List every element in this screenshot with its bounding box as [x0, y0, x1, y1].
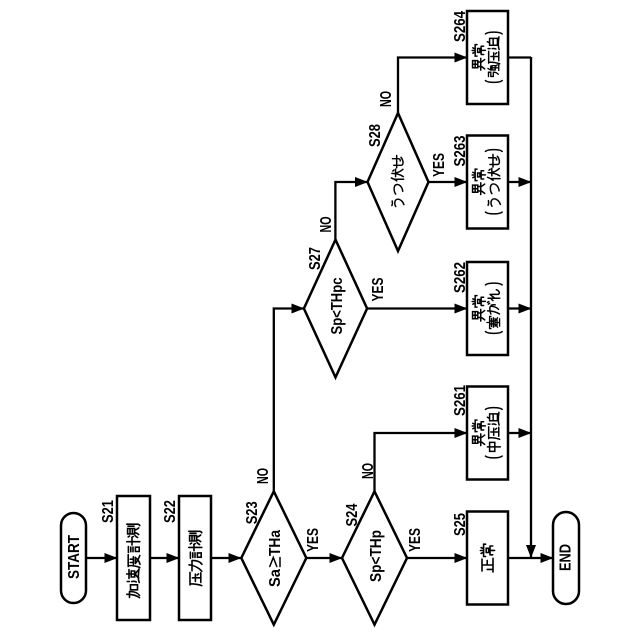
svg-text:S24: S24 — [344, 503, 361, 526]
label S21 step number — [100, 500, 117, 523]
value Sp&lt;THpc — [329, 277, 346, 334]
label S23 step number — [244, 501, 261, 524]
svg-text:S261: S261 — [452, 385, 469, 416]
value Sp&lt;THp — [368, 530, 385, 582]
value 異常(うつ伏せ) — [472, 169, 485, 194]
label NO of S27 — [318, 217, 335, 233]
wire START to S21 — [86, 557, 117, 559]
wire S27 YES to S262 — [367, 307, 467, 309]
result box S264 — [467, 11, 508, 104]
svg-text:START: START — [66, 535, 83, 579]
end terminal END — [553, 512, 579, 604]
value Sa≧THa — [267, 530, 284, 587]
label S261 step number — [452, 385, 469, 416]
wire S263 to collector — [508, 181, 531, 183]
svg-text:NO: NO — [255, 468, 272, 484]
svg-text:NO: NO — [360, 463, 377, 479]
value うつ伏せ — [391, 155, 404, 206]
label S263 step number — [452, 135, 469, 166]
wire S24 NO to S261 — [375, 433, 468, 491]
wire S23 NO to S27 — [274, 309, 304, 492]
result box S261 — [467, 387, 508, 480]
value 異常(塞がれ) — [472, 296, 485, 321]
decision diamond S24 — [342, 491, 407, 624]
wire S22 to S23 — [211, 557, 241, 559]
label YES of S24 — [407, 528, 424, 552]
label S264 step number — [452, 11, 469, 42]
svg-text:S262: S262 — [452, 262, 469, 293]
svg-text:YES: YES — [431, 153, 448, 177]
wire S261 to collector — [508, 432, 531, 434]
value 正常 — [480, 544, 494, 572]
decision diamond S27 — [304, 240, 367, 378]
wire S25 to END — [508, 557, 553, 559]
value 異常(強圧迫) — [472, 45, 485, 70]
label S262 step number — [452, 262, 469, 293]
wire S24 YES to S25 — [407, 557, 467, 559]
svg-text:YES: YES — [370, 278, 387, 302]
label S24 step number — [344, 503, 361, 526]
svg-text:S23: S23 — [244, 501, 261, 524]
wire S264 to collector — [508, 56, 531, 59]
svg-text:Sp<THpc: Sp<THpc — [329, 277, 346, 334]
wire S23 YES to S24 — [306, 557, 342, 559]
label NO of S28 — [378, 91, 395, 107]
label S25 step number — [452, 513, 469, 536]
svg-text:YES: YES — [305, 528, 322, 552]
svg-text:S25: S25 — [452, 513, 469, 536]
value 圧力計測 — [189, 531, 202, 585]
svg-text:END: END — [558, 544, 575, 571]
wire S27 NO to S28 — [335, 182, 367, 240]
svg-text:YES: YES — [407, 528, 424, 552]
svg-text:Sa: Sa — [267, 569, 284, 587]
svg-text:S21: S21 — [100, 500, 117, 523]
collector wire to END line — [530, 58, 532, 558]
value 異常(中圧迫) — [472, 420, 485, 445]
label START text — [66, 535, 83, 579]
wire S262 to collector — [508, 307, 531, 309]
result box S263 — [467, 136, 508, 229]
svg-text:S27: S27 — [307, 247, 324, 270]
label NO of S23 — [255, 468, 272, 484]
result box S25 — [467, 512, 508, 605]
label YES of S23 — [305, 528, 322, 552]
decision diamond S23 — [241, 491, 306, 624]
svg-text:THa: THa — [267, 530, 284, 556]
svg-text:S28: S28 — [367, 124, 384, 147]
wire S28 YES to S263 — [429, 181, 468, 183]
label YES of S27 — [370, 278, 387, 302]
process box S21 — [117, 496, 150, 620]
svg-text:S22: S22 — [162, 500, 179, 523]
process box S22 — [179, 496, 211, 620]
svg-text:Sp<THp: Sp<THp — [368, 530, 385, 582]
svg-text:NO: NO — [318, 217, 335, 233]
label S27 step number — [307, 247, 324, 270]
label S22 step number — [162, 500, 179, 523]
decision diamond S28 — [368, 113, 429, 251]
svg-text:S263: S263 — [452, 135, 469, 166]
result box S262 — [467, 262, 508, 355]
svg-text:NO: NO — [378, 91, 395, 107]
label NO of S24 — [360, 463, 377, 479]
label S28 step number — [367, 124, 384, 147]
end terminal END text — [558, 544, 575, 571]
label YES of S28 — [431, 153, 448, 177]
start terminal START — [61, 513, 86, 603]
wire S21 to S22 — [150, 557, 179, 559]
value 加速度計測 — [127, 524, 140, 598]
svg-text:S264: S264 — [452, 11, 469, 42]
wire S28 NO to S264 — [398, 58, 467, 114]
